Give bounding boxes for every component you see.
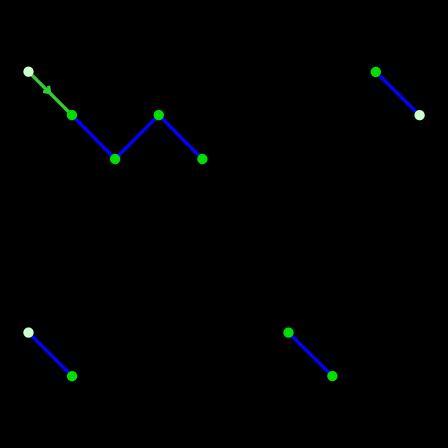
- node N10 green: [283, 327, 293, 337]
- wire blue edge N4-N5: [159, 115, 203, 159]
- arrowhead on edge N1->N2: [43, 86, 50, 93]
- node N9 green: [67, 371, 77, 381]
- node N6 green: [371, 67, 381, 77]
- node N1 pale: [23, 67, 33, 77]
- wire blue edge N8-N9: [29, 333, 73, 377]
- node N11 green: [327, 371, 337, 381]
- node N3 green: [110, 154, 120, 164]
- node N4 green: [154, 110, 164, 120]
- wire blue edge N2-N3: [72, 115, 115, 159]
- node N8 pale: [23, 327, 33, 337]
- node N2 green: [67, 110, 77, 120]
- node N7 pale: [414, 110, 424, 120]
- wire blue edge N3-N4: [115, 115, 159, 159]
- wire green directed edge N1->N2: [29, 72, 72, 115]
- wire blue edge N10-N11: [289, 333, 333, 377]
- node N5 green: [197, 154, 207, 164]
- wire blue edge N6-N7: [376, 72, 420, 115]
